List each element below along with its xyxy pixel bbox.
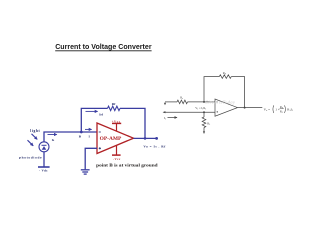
title [55, 42, 151, 51]
feedback wire left segment [81, 108, 107, 132]
-Vcc supply [112, 145, 121, 155]
photodiode D1 [39, 142, 49, 152]
battery bar -Vdc [38, 166, 50, 168]
svg-text:B: B [79, 134, 82, 138]
svg-text:Vo = Is . Rf: Vo = Is . Rf [143, 144, 166, 148]
resistor Rs [177, 100, 188, 104]
node at non-inverting input [203, 111, 205, 113]
input terminal arrow (top) [164, 103, 166, 106]
ground wire from plus input [85, 148, 97, 169]
output wire [134, 137, 157, 139]
svg-text:OP-AMP: OP-AMP [100, 136, 123, 142]
node at inverting input [203, 101, 205, 103]
op-amp U2 [215, 99, 238, 116]
feedback wire left [204, 77, 219, 102]
svg-text:Rs: Rs [180, 96, 183, 101]
svg-text:Current to Voltage Converter: Current to Voltage Converter [55, 42, 151, 51]
Is current arrow [48, 134, 57, 136]
light arrows [28, 134, 38, 146]
wire input from photodiode to op-amp inverting input [44, 132, 97, 142]
input terminal arrow (bottom) [163, 111, 166, 113]
svg-text:RF: RF [223, 71, 227, 76]
output node U2 [244, 107, 246, 109]
svg-text:Irf: Irf [99, 112, 104, 116]
node B [80, 131, 83, 134]
svg-text:- Vdc: - Vdc [39, 169, 48, 173]
plus input marker U2 [216, 111, 218, 113]
op-amp U1 [97, 123, 134, 154]
minus input pin marker [99, 131, 101, 133]
svg-text:light: light [30, 129, 40, 133]
svg-text:R1I1: R1I1 [287, 107, 294, 112]
minus input marker U2 [216, 101, 218, 103]
+Vcc supply [112, 123, 121, 131]
svg-text:I1: I1 [164, 116, 166, 121]
svg-text:Is: Is [52, 138, 55, 142]
svg-text:R1: R1 [280, 109, 283, 114]
wire top input [165, 101, 215, 103]
plus input pin marker [99, 147, 101, 149]
svg-text:V1 = I1R1: V1 = I1R1 [195, 106, 206, 111]
output node junction [144, 137, 147, 140]
svg-text:-Vcc: -Vcc [113, 157, 121, 161]
I current arrow [85, 128, 92, 130]
svg-text:point B is at virtual ground: point B is at virtual ground [96, 162, 158, 167]
svg-text:photodiode: photodiode [19, 156, 42, 160]
wire bottom input [164, 111, 216, 113]
resistor RF [219, 75, 231, 79]
svg-text:I: I [89, 135, 91, 139]
resistor Rf [108, 106, 121, 110]
formula Vo = (1+RF/R1)R1I1 [264, 105, 294, 114]
feedback wire right segment [120, 108, 145, 138]
svg-text:Rf: Rf [112, 102, 117, 106]
svg-text:R1: R1 [207, 121, 210, 126]
svg-text:Vo =: Vo = [264, 107, 271, 112]
I1 current arrow [168, 117, 178, 119]
svg-text:+Vcc: +Vcc [112, 119, 121, 123]
output wire U2 [238, 107, 263, 109]
wire photodiode cathode to battery [43, 152, 45, 168]
Irf current arrow [86, 110, 98, 112]
output terminal dot [155, 137, 158, 140]
ground [81, 170, 90, 174]
R1 ground arrow [203, 131, 205, 134]
svg-text:CircuitsToday: CircuitsToday [205, 100, 235, 105]
resistor R1 [202, 112, 206, 131]
feedback wire right [231, 77, 244, 108]
